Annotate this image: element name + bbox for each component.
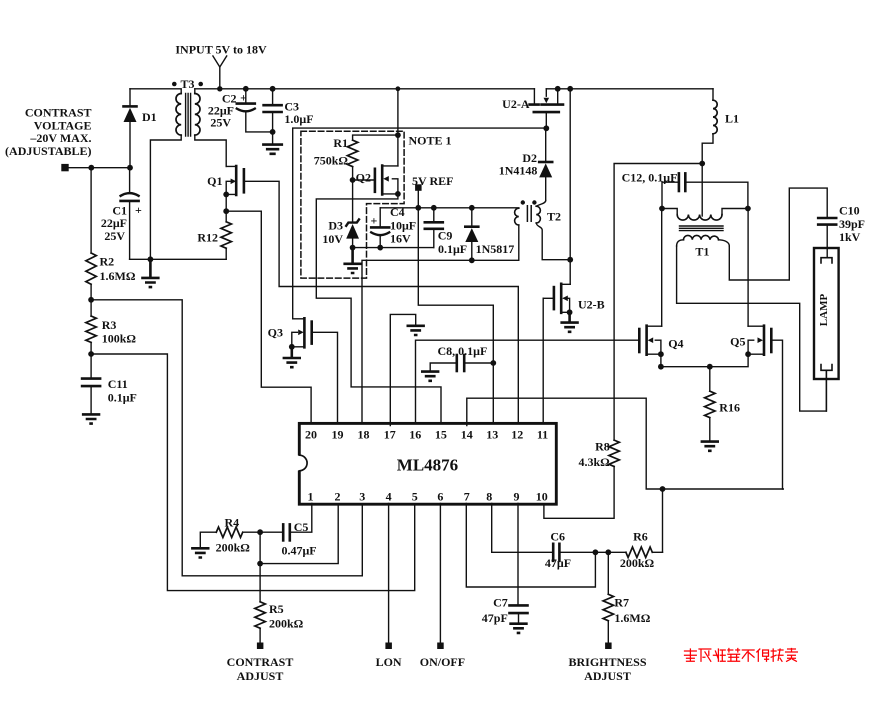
capacitor C4 [371, 208, 389, 248]
ground below rail [141, 259, 159, 287]
svg-text:750kΩ: 750kΩ [314, 154, 349, 168]
svg-text:1N5817: 1N5817 [476, 242, 515, 256]
lamp [814, 248, 839, 411]
wire Q1 gate to pin 12 [244, 181, 518, 423]
node 1N5817 anode return rail [469, 257, 475, 263]
node dots middle [396, 86, 401, 91]
svg-text:Q3: Q3 [268, 325, 283, 339]
svg-text:16V: 16V [390, 231, 411, 245]
svg-text:4.3kΩ: 4.3kΩ [579, 455, 611, 469]
node Q3 source/body [289, 344, 295, 350]
svg-text:19: 19 [332, 428, 344, 442]
capacitor C10 [818, 218, 836, 258]
node L1/T1 center tap [699, 161, 705, 167]
svg-text:C4: C4 [390, 205, 405, 219]
inductor L1 [702, 89, 717, 164]
resistor R5 [255, 564, 265, 643]
terminal ON/OFF [437, 643, 444, 650]
svg-text:8: 8 [486, 489, 492, 503]
svg-text:3: 3 [359, 489, 365, 503]
transistor Q2 [353, 166, 398, 195]
svg-text:Q4: Q4 [668, 336, 683, 350]
svg-text:R16: R16 [719, 401, 740, 415]
svg-text:13: 13 [486, 428, 498, 442]
svg-text:LAMP: LAMP [818, 294, 830, 327]
node Q4 source rail [658, 364, 664, 370]
node R5/pin2 junction [257, 561, 263, 567]
wire R6 riser [662, 489, 664, 552]
svg-text:ON/OFF: ON/OFF [420, 655, 465, 669]
ground below C11 [82, 414, 100, 423]
node U2-B line on rail [567, 86, 573, 92]
wire VIN rail left [195, 88, 535, 90]
capacitor C7 [510, 605, 528, 623]
svg-text:R7: R7 [614, 595, 629, 609]
node R6/R7 junction [605, 549, 611, 555]
wire pin9 to C7 [517, 503, 519, 605]
svg-text:2: 2 [335, 489, 341, 503]
wire R3/C11 node to pin5 riser [91, 354, 415, 591]
node R2 on contrast net [88, 165, 94, 171]
svg-text:NOTE 1: NOTE 1 [409, 134, 452, 148]
node C2 on VIN rail [243, 86, 249, 92]
node C2/C3 ground junction [270, 129, 276, 135]
svg-text:200kΩ: 200kΩ [620, 556, 655, 570]
svg-text:1.6MΩ: 1.6MΩ [614, 611, 650, 625]
terminal LON [385, 643, 392, 650]
watermark red text [685, 649, 798, 662]
resistor R16 [705, 367, 715, 442]
wire T1 secondary right to C10 [729, 188, 827, 280]
terminal CONTRAST VOLTAGE [61, 164, 68, 171]
svg-text:R5: R5 [269, 602, 284, 616]
wire Q5 gate to feedback [771, 340, 782, 489]
node Q2 gate/R1/D3 [350, 177, 356, 183]
svg-text:1.6MΩ: 1.6MΩ [100, 269, 136, 283]
svg-text:INPUT 5V to 18V: INPUT 5V to 18V [175, 43, 267, 57]
node R6/pin14/Q5-gate net [660, 486, 666, 492]
svg-text:4: 4 [386, 489, 392, 503]
svg-text:Q2: Q2 [356, 170, 371, 184]
ground below U2-B [560, 312, 578, 332]
ground below C3 [263, 145, 281, 154]
svg-text:1: 1 [308, 489, 314, 503]
wire T2 return rail to pin 18 [362, 260, 519, 423]
svg-text:Q1: Q1 [207, 174, 222, 188]
transistor U2-B [543, 260, 570, 313]
svg-text:12: 12 [511, 428, 523, 442]
svg-text:17: 17 [384, 428, 396, 442]
capacitor C3 [264, 89, 282, 144]
wire pin1 to C5 [290, 503, 312, 532]
terminal 5V REF [415, 184, 422, 191]
wire T3 top-left to D1 [130, 89, 195, 94]
capacitor C1 [121, 168, 139, 260]
capacitor C2 [237, 89, 273, 132]
resistor R8 [544, 440, 619, 518]
ground below C7 [509, 624, 527, 633]
svg-text:C5: C5 [294, 520, 309, 534]
svg-text:LON: LON [376, 655, 402, 669]
node D1/C1 on contrast net [127, 165, 133, 171]
svg-text:20: 20 [305, 428, 317, 442]
svg-text:+: + [370, 213, 377, 227]
node Q2 source/body [395, 191, 401, 197]
svg-text:18: 18 [358, 428, 370, 442]
svg-text:0.47μF: 0.47μF [282, 543, 317, 557]
svg-text:ADJUST: ADJUST [584, 669, 631, 683]
svg-text:C11: C11 [108, 377, 128, 391]
wire Q4 drain to T1 [661, 209, 663, 327]
wire Q2 source to pin 15 [316, 194, 441, 424]
transistor Q4 [639, 326, 661, 355]
svg-text:R4: R4 [225, 516, 240, 530]
wire pin14 feedback [467, 398, 784, 489]
node T2 to U2-B drain [567, 257, 573, 263]
wire 5V REF to pin 13 [418, 191, 493, 424]
NOTE 1 dashed box [301, 131, 404, 278]
capacitor C5 [260, 524, 290, 540]
wire pin6 ON/OFF [439, 503, 441, 642]
wire Q3 gate to pin 19 [312, 332, 338, 423]
ground below Q3 [283, 347, 301, 367]
resistor R12 [221, 211, 231, 259]
wire pin4 LON [388, 503, 390, 642]
svg-text:C9: C9 [438, 228, 453, 242]
svg-text:5V REF: 5V REF [412, 174, 453, 188]
svg-text:200kΩ: 200kΩ [216, 541, 251, 555]
svg-text:ML4876: ML4876 [397, 455, 458, 474]
node R2/R3 junction [88, 297, 94, 303]
svg-text:R6: R6 [633, 530, 648, 544]
svg-text:C7: C7 [493, 595, 508, 609]
transistor Q5 [748, 326, 771, 355]
node R4/C5 junction [257, 529, 263, 535]
node C6/pin7 junction [593, 549, 599, 555]
node R16 on source rail [707, 364, 713, 370]
wire Q5 drain to T1 [747, 209, 749, 327]
svg-text:T3: T3 [180, 77, 194, 91]
node Q1 source/R12 [223, 208, 229, 214]
svg-text:R2: R2 [100, 255, 115, 269]
node dots top-left [217, 86, 222, 91]
wire R4/C5 node down [259, 532, 261, 563]
wire T1 secondary left to lamp bottom [677, 246, 827, 411]
node R3/C11 junction [88, 351, 94, 357]
svg-text:(ADJUSTABLE): (ADJUSTABLE) [5, 144, 91, 158]
svg-text:10μF: 10μF [390, 218, 416, 232]
svg-text:BRIGHTNESS: BRIGHTNESS [568, 655, 646, 669]
resistor R4 [200, 527, 260, 548]
svg-text:9: 9 [514, 489, 520, 503]
svg-text:10: 10 [536, 489, 548, 503]
svg-text:U2-B: U2-B [578, 298, 605, 312]
node C4 bottom rail [377, 245, 383, 251]
node D3 anode rail [350, 245, 356, 251]
resistor R7 [603, 552, 613, 642]
terminal BRIGHTNESS ADJUST [605, 643, 612, 650]
IC ML4876 [292, 423, 557, 504]
node U2-B source/body [567, 309, 573, 315]
node U2-A drain on rail [555, 86, 561, 92]
svg-text:1.0μF: 1.0μF [284, 112, 313, 126]
wire Q1 source to pin 20 [226, 211, 311, 423]
node T1 primary right [745, 206, 751, 212]
wire R2/R3 node to pin3 riser [91, 300, 362, 576]
svg-text:C6: C6 [550, 530, 565, 544]
svg-text:10V: 10V [322, 232, 343, 246]
capacitor C11 [82, 354, 100, 414]
transistor Q3 [292, 318, 312, 347]
diode D2 [539, 128, 552, 200]
svg-text:5: 5 [412, 489, 418, 503]
svg-text:1kV: 1kV [839, 230, 861, 244]
node C9 on C4 rail [431, 205, 437, 211]
svg-text:T2: T2 [547, 209, 561, 223]
svg-text:11: 11 [537, 428, 548, 442]
node C8/pin13 [490, 360, 496, 366]
transistor Q1 [226, 166, 244, 211]
svg-text:1N4148: 1N4148 [499, 164, 538, 178]
wire T1 center tap to R8 [614, 164, 702, 441]
wire 5V REF top rail [380, 207, 519, 209]
node U2-A gate/D2/Q3 drain [543, 125, 549, 131]
svg-text:15: 15 [435, 428, 447, 442]
wire contrast node [67, 167, 130, 169]
wire C1 bottom rail [130, 258, 227, 260]
svg-text:16: 16 [409, 428, 421, 442]
svg-text:100kΩ: 100kΩ [102, 332, 137, 346]
svg-text:D3: D3 [328, 219, 343, 233]
capacitor C8 [430, 355, 493, 371]
ground below C8 [421, 372, 439, 381]
svg-text:47pF: 47pF [482, 611, 508, 625]
svg-text:25V: 25V [210, 116, 231, 130]
wire pin16 to Q4 gate [416, 340, 640, 423]
svg-text:R8: R8 [595, 440, 610, 454]
svg-text:C12, 0.1μF: C12, 0.1μF [622, 171, 678, 185]
ground below D3 [343, 248, 361, 273]
wire pin2 [260, 504, 338, 563]
wire pin8 to C6 [492, 503, 554, 552]
resistor R6 [626, 547, 663, 557]
svg-text:+: + [240, 91, 247, 105]
capacitor C9 [425, 208, 443, 248]
ground below R4 [191, 548, 209, 557]
svg-text:CONTRAST: CONTRAST [227, 655, 294, 669]
ground below R16 [701, 442, 719, 451]
node C3 on VIN rail [270, 86, 276, 92]
wire D3/C4/C9 bottom rail [353, 247, 434, 249]
node Q5 source/body [745, 351, 751, 357]
wire pin7 to C6 net [466, 503, 595, 587]
resistor R3 [86, 300, 96, 354]
ground pin17 [407, 326, 425, 335]
svg-text:0.1μF: 0.1μF [438, 242, 467, 256]
svg-text:R12: R12 [197, 231, 218, 245]
svg-text:200kΩ: 200kΩ [269, 617, 304, 631]
terminal CONTRAST ADJUST [257, 643, 264, 650]
wire pin17 to ground [390, 314, 415, 425]
svg-text:+: + [135, 203, 142, 217]
svg-text:D1: D1 [142, 110, 157, 124]
capacitor C6 [553, 544, 626, 561]
resistor R1 [347, 135, 397, 221]
svg-text:L1: L1 [725, 112, 739, 126]
svg-text:39pF: 39pF [839, 217, 865, 231]
node R1 top junction [395, 132, 401, 138]
svg-text:U2-A: U2-A [502, 97, 530, 111]
node T3 return junction [148, 256, 154, 262]
transformer T3 [172, 82, 203, 136]
svg-text:C8, 0.1μF: C8, 0.1μF [438, 344, 488, 358]
svg-text:R1: R1 [333, 136, 348, 150]
capacitor C12 [662, 173, 748, 208]
wire U2-A drain to U2-B [569, 89, 571, 260]
svg-text:7: 7 [464, 489, 470, 503]
diode 1N5817 [465, 208, 478, 260]
op-amp U2-A (P-MOSFET) [530, 89, 563, 129]
input arrow INPUT 5V to 18V [213, 56, 227, 89]
wire Q2 drain to VIN rail [397, 89, 399, 166]
svg-text:T1: T1 [695, 244, 709, 258]
node T1 primary left [659, 206, 665, 212]
wire Q3 drain to U2-A gate [293, 128, 547, 319]
svg-text:R3: R3 [102, 318, 117, 332]
transformer T1 [662, 164, 748, 247]
node Q1 source/body [223, 192, 229, 198]
svg-text:ADJUST: ADJUST [237, 669, 284, 683]
node 5V REF on C4 rail [415, 205, 421, 211]
svg-text:Q5: Q5 [730, 335, 745, 349]
node 1N5817 cathode rail [469, 205, 475, 211]
wire T3 bottoms [150, 135, 226, 259]
svg-text:6: 6 [437, 489, 443, 503]
node Q4 source/body [658, 351, 664, 357]
svg-text:25V: 25V [104, 229, 125, 243]
wire U2-B gate to pin 11 [542, 298, 544, 423]
svg-text:C10: C10 [839, 204, 860, 218]
transformer T2 [515, 200, 571, 260]
resistor R2 [86, 168, 96, 300]
svg-text:47μF: 47μF [545, 556, 571, 570]
zener D3 [346, 219, 359, 247]
wire Q4/Q5 source rail [661, 354, 748, 367]
svg-text:14: 14 [461, 428, 473, 442]
svg-text:0.1μF: 0.1μF [108, 391, 137, 405]
wire VIN rail right [546, 88, 713, 90]
diode D1 [124, 89, 137, 168]
